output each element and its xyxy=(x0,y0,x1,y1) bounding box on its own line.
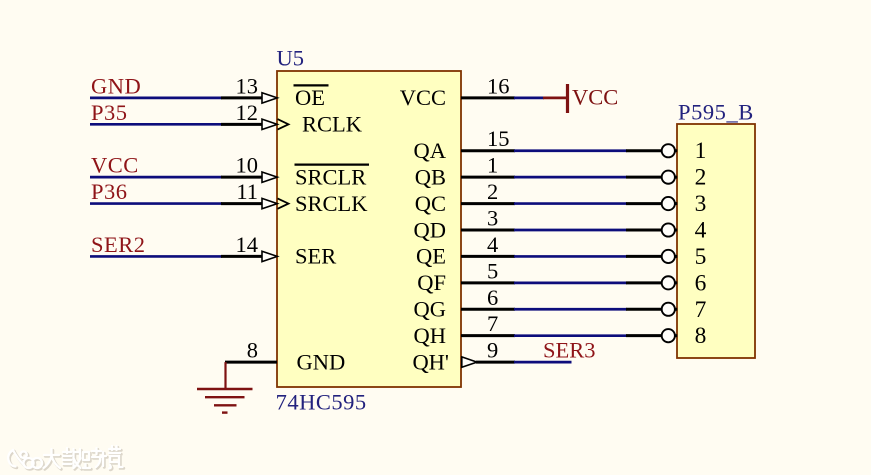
svg-text:QF: QF xyxy=(417,270,446,295)
svg-text:9: 9 xyxy=(487,338,498,363)
svg-text:VCC: VCC xyxy=(91,153,139,178)
svg-text:5: 5 xyxy=(695,244,707,270)
svg-text:QA: QA xyxy=(414,138,447,163)
svg-text:4: 4 xyxy=(695,218,707,244)
svg-text:QH': QH' xyxy=(412,349,449,374)
svg-text:4: 4 xyxy=(487,232,498,257)
svg-text:1: 1 xyxy=(487,153,498,178)
svg-text:QD: QD xyxy=(414,217,447,242)
svg-text:12: 12 xyxy=(236,100,259,125)
svg-text:GND: GND xyxy=(297,349,346,374)
svg-text:VCC: VCC xyxy=(400,85,446,110)
svg-text:3: 3 xyxy=(487,206,498,231)
svg-text:QH: QH xyxy=(414,323,447,348)
svg-text:6: 6 xyxy=(487,285,498,310)
svg-text:SER: SER xyxy=(295,244,336,269)
svg-text:U5: U5 xyxy=(277,45,305,70)
svg-text:GND: GND xyxy=(91,73,141,98)
svg-text:6: 6 xyxy=(695,270,707,296)
svg-text:16: 16 xyxy=(487,73,510,98)
svg-text:8: 8 xyxy=(247,338,258,363)
svg-text:7: 7 xyxy=(487,311,498,336)
svg-text:14: 14 xyxy=(236,232,259,257)
svg-text:3: 3 xyxy=(695,191,707,217)
svg-text:SRCLR: SRCLR xyxy=(295,164,366,189)
svg-text:SRCLK: SRCLK xyxy=(295,191,368,216)
svg-text:2: 2 xyxy=(695,165,707,191)
svg-text:1: 1 xyxy=(695,138,707,164)
svg-text:2: 2 xyxy=(487,179,498,204)
svg-text:P595_B: P595_B xyxy=(678,100,754,125)
svg-text:QB: QB xyxy=(415,164,446,189)
svg-text:QE: QE xyxy=(416,244,446,269)
svg-text:P35: P35 xyxy=(91,100,128,125)
svg-text:OE: OE xyxy=(295,85,325,110)
svg-text:RCLK: RCLK xyxy=(302,112,363,137)
svg-text:8: 8 xyxy=(695,323,707,349)
svg-text:7: 7 xyxy=(695,297,707,323)
svg-text:11: 11 xyxy=(236,179,258,204)
svg-text:13: 13 xyxy=(236,73,259,98)
svg-text:SER2: SER2 xyxy=(91,232,146,257)
svg-text:VCC: VCC xyxy=(572,85,618,110)
svg-text:QG: QG xyxy=(414,297,447,322)
svg-text:15: 15 xyxy=(487,126,510,151)
svg-text:74HC595: 74HC595 xyxy=(276,390,367,415)
svg-text:QC: QC xyxy=(415,191,446,216)
svg-text:10: 10 xyxy=(236,153,259,178)
svg-text:SER3: SER3 xyxy=(543,338,596,363)
svg-text:5: 5 xyxy=(487,258,498,283)
svg-text:P36: P36 xyxy=(91,179,128,204)
